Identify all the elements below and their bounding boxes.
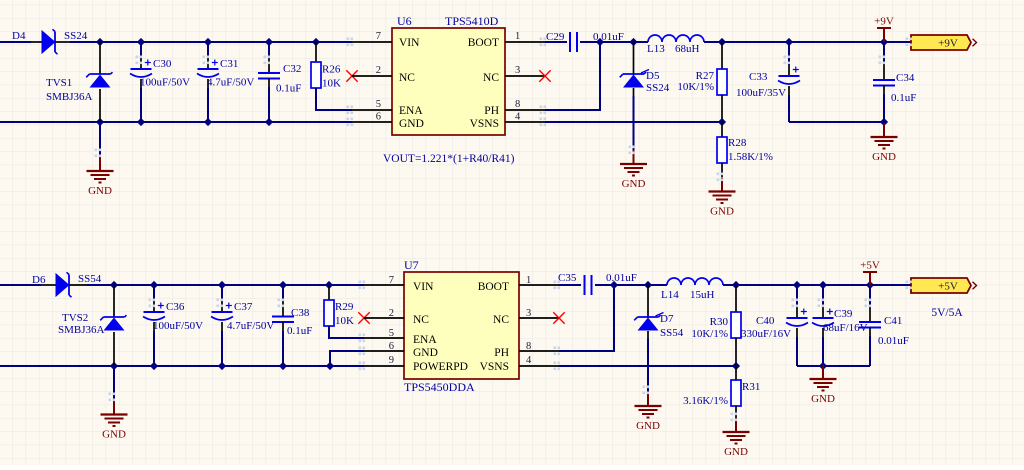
ground GND below C34 <box>871 123 898 163</box>
svg-text:4.7uF/50V: 4.7uF/50V <box>207 77 254 89</box>
svg-text:NC: NC <box>399 72 415 84</box>
svg-text:15uH: 15uH <box>690 289 715 301</box>
op-amp U6 TPS5410D body <box>392 14 505 135</box>
resistor R28 1.58K/1% <box>717 122 773 177</box>
svg-text:+5V: +5V <box>938 281 958 293</box>
inductor L14 15uH <box>661 278 911 301</box>
capacitor C32 0.1uF <box>258 42 301 122</box>
svg-text:D7: D7 <box>660 313 674 325</box>
svg-text:BOOT: BOOT <box>468 37 499 49</box>
diode D7 SS54 <box>634 285 684 339</box>
capacitor C39 68uF/16V <box>812 285 868 366</box>
VOUT formula note <box>383 153 515 165</box>
wire input rail to D6 anode <box>0 284 41 286</box>
svg-text:C30: C30 <box>153 58 172 70</box>
svg-text:1.58K/1%: 1.58K/1% <box>728 151 773 163</box>
svg-text:GND: GND <box>399 118 424 130</box>
svg-text:68uH: 68uH <box>675 43 700 55</box>
svg-text:C31: C31 <box>220 58 238 70</box>
capacitor C31 4.7uF/50V <box>197 42 254 122</box>
svg-text:1: 1 <box>515 31 520 42</box>
svg-text:TPS5410D: TPS5410D <box>445 14 499 28</box>
note 5V/5A <box>931 307 963 319</box>
svg-text:TPS5450DDA: TPS5450DDA <box>404 380 475 394</box>
ground GND below D5 <box>620 150 647 190</box>
svg-text:10K: 10K <box>335 315 354 327</box>
wire output ground segment <box>789 118 888 126</box>
wire top rail D4 to U6 VIN <box>70 38 352 46</box>
svg-text:8: 8 <box>515 99 520 110</box>
svg-text:4: 4 <box>515 112 521 123</box>
svg-text:PH: PH <box>484 105 499 117</box>
svg-text:VIN: VIN <box>399 37 420 49</box>
svg-text:6: 6 <box>376 112 381 123</box>
svg-text:GND: GND <box>710 206 734 218</box>
power +5V symbol <box>860 260 880 287</box>
svg-text:5V/5A: 5V/5A <box>931 307 963 319</box>
svg-text:C33: C33 <box>749 71 768 83</box>
svg-text:10K/1%: 10K/1% <box>691 328 728 340</box>
svg-text:100uF/50V: 100uF/50V <box>140 77 190 89</box>
svg-text:D4: D4 <box>12 30 26 42</box>
U6 pin names <box>399 37 499 130</box>
svg-text:10K/1%: 10K/1% <box>677 81 714 93</box>
svg-text:SS24: SS24 <box>646 82 670 94</box>
svg-text:VSNS: VSNS <box>470 118 499 130</box>
svg-text:ENA: ENA <box>399 105 423 117</box>
svg-text:+5V: +5V <box>860 260 880 272</box>
U6 pin stubs <box>352 42 545 122</box>
svg-text:TVS2: TVS2 <box>62 312 88 324</box>
svg-text:L13: L13 <box>647 43 665 55</box>
svg-text:VOUT=1.221*(1+R40/R41): VOUT=1.221*(1+R40/R41) <box>383 153 515 165</box>
svg-text:SMBJ36A: SMBJ36A <box>58 324 105 336</box>
wire BOOT node to output node bottom <box>614 281 667 289</box>
svg-text:D5: D5 <box>646 70 660 82</box>
port +5V <box>911 278 977 293</box>
svg-text:PH: PH <box>494 347 509 359</box>
svg-text:R26: R26 <box>322 64 341 76</box>
svg-text:5: 5 <box>376 99 381 110</box>
svg-text:VIN: VIN <box>413 281 434 293</box>
svg-text:0.1uF: 0.1uF <box>276 83 301 95</box>
wire D5 anode to ground <box>633 88 635 150</box>
svg-text:SMBJ36A: SMBJ36A <box>46 91 93 103</box>
resistor R31 3.16K/1% <box>683 366 760 418</box>
resistor R29 10K <box>324 285 354 327</box>
svg-text:330uF/16V: 330uF/16V <box>741 328 791 340</box>
svg-text:0.1uF: 0.1uF <box>287 325 312 337</box>
svg-text:4: 4 <box>526 355 532 366</box>
wire top rail D6 to U7 VIN <box>87 281 364 289</box>
wire R26 to ENA pin 5 <box>316 88 352 110</box>
svg-text:2: 2 <box>376 65 381 76</box>
resistor R26 10K <box>311 42 341 90</box>
svg-text:GND: GND <box>413 347 438 359</box>
ground GND below TVS1 <box>87 122 114 197</box>
svg-text:3: 3 <box>515 65 520 76</box>
no-ERC cross on U6 pin 2 <box>346 70 357 81</box>
wire D7 anode to ground <box>647 331 649 392</box>
capacitor C35 0.01uF <box>558 272 637 295</box>
U7 pin numbers <box>389 275 532 366</box>
svg-text:GND: GND <box>724 446 748 458</box>
svg-text:R28: R28 <box>728 137 747 149</box>
ground GND below TVS2 <box>101 366 128 441</box>
svg-text:0.1uF: 0.1uF <box>891 92 916 104</box>
svg-text:9: 9 <box>389 355 394 366</box>
inductor L13 68uH <box>647 35 911 55</box>
wire ground rail bottom <box>0 118 352 126</box>
capacitor C38 0.1uF <box>272 285 312 366</box>
svg-text:C38: C38 <box>291 307 310 319</box>
ground GND below D7 <box>635 392 662 432</box>
wire input rail to D4 anode <box>0 41 31 43</box>
power +9V symbol <box>874 16 894 43</box>
ground GND below R31 <box>723 418 750 458</box>
svg-text:SS54: SS54 <box>78 273 102 285</box>
svg-text:GND: GND <box>622 178 646 190</box>
ground GND below R28 <box>709 178 736 218</box>
resistor R27 10K/1% <box>677 42 727 95</box>
capacitor C40 330uF/16V <box>741 285 808 366</box>
svg-text:100uF/35V: 100uF/35V <box>736 87 786 99</box>
wire ground rail bottom 2 <box>0 362 364 370</box>
diode D6 SS54 <box>32 272 102 297</box>
svg-text:GND: GND <box>872 151 896 163</box>
U6 pin numbers <box>376 31 521 123</box>
svg-text:GND: GND <box>636 420 660 432</box>
svg-text:R30: R30 <box>710 316 729 328</box>
svg-text:C36: C36 <box>166 301 185 313</box>
op-amp U7 TPS5450DDA body <box>404 258 519 394</box>
svg-text:L14: L14 <box>661 289 679 301</box>
svg-text:BOOT: BOOT <box>478 281 509 293</box>
svg-text:ENA: ENA <box>413 334 437 346</box>
no-ERC cross on U6 pin 3 <box>539 70 550 81</box>
svg-text:C29: C29 <box>546 31 565 43</box>
svg-text:VSNS: VSNS <box>480 361 509 373</box>
resistor R30 10K/1% <box>691 285 741 340</box>
junction markers <box>95 38 913 422</box>
svg-text:NC: NC <box>413 314 429 326</box>
svg-text:SS54: SS54 <box>660 327 684 339</box>
capacitor C36 100uF/50V <box>143 285 203 366</box>
no-ERC cross on U7 pin 3 <box>553 312 564 323</box>
svg-text:3.16K/1%: 3.16K/1% <box>683 395 728 407</box>
svg-text:TVS1: TVS1 <box>46 77 72 89</box>
capacitor C37 4.7uF/50V <box>211 285 274 366</box>
wire GND pin 6 to ground rail <box>330 351 364 366</box>
svg-text:C39: C39 <box>834 308 853 320</box>
svg-text:10K: 10K <box>322 78 341 90</box>
no-ERC cross on U7 pin 2 <box>358 312 369 323</box>
wire BOOT node to output node <box>600 38 648 46</box>
ground GND below C39 <box>810 365 837 405</box>
wire VSNS feedback <box>545 95 726 126</box>
tvs diode TVS2 SMBJ36A <box>58 285 127 366</box>
svg-text:C40: C40 <box>756 315 775 327</box>
svg-text:100uF/50V: 100uF/50V <box>153 320 203 332</box>
svg-text:NC: NC <box>483 72 499 84</box>
capacitor C30 100uF/50V <box>130 42 190 122</box>
svg-text:GND: GND <box>102 429 126 441</box>
tvs diode TVS1 SMBJ36A <box>46 42 113 122</box>
svg-text:7: 7 <box>376 31 381 42</box>
capacitor C41 0.01uF <box>859 285 909 366</box>
svg-text:0.01uF: 0.01uF <box>878 335 909 347</box>
svg-text:U6: U6 <box>397 14 412 28</box>
svg-text:GND: GND <box>88 185 112 197</box>
svg-text:C34: C34 <box>896 72 915 84</box>
wire BOOT node to PH pin 8 bottom <box>559 281 618 351</box>
capacitor C29 0.01uF <box>545 31 624 52</box>
svg-text:C37: C37 <box>234 301 253 313</box>
diode D4 SS24 <box>12 29 88 54</box>
svg-text:R31: R31 <box>742 381 760 393</box>
svg-text:NC: NC <box>493 314 509 326</box>
svg-text:U7: U7 <box>404 258 419 272</box>
svg-text:+9V: +9V <box>938 38 958 50</box>
U7 pin stubs <box>364 285 559 366</box>
wire output ground segment bottom <box>797 362 870 370</box>
capacitor C33 100uF/35V <box>736 42 800 122</box>
svg-text:C35: C35 <box>558 272 577 284</box>
svg-text:POWERPD: POWERPD <box>413 361 468 373</box>
wire BOOT node to PH pin 8 <box>545 38 604 110</box>
wire R29 to ENA pin 5 <box>329 326 364 338</box>
svg-text:C41: C41 <box>884 315 902 327</box>
svg-text:R29: R29 <box>335 301 354 313</box>
diode D5 SS24 <box>620 42 670 94</box>
port +9V <box>911 35 977 50</box>
capacitor C34 0.1uF <box>873 42 916 122</box>
svg-text:SS24: SS24 <box>64 30 88 42</box>
svg-text:GND: GND <box>811 393 835 405</box>
svg-text:+9V: +9V <box>874 16 894 28</box>
svg-text:4.7uF/50V: 4.7uF/50V <box>227 320 274 332</box>
svg-text:0.01uF: 0.01uF <box>606 272 637 284</box>
wire VSNS feedback bottom <box>559 338 740 370</box>
U7 pin names <box>413 281 509 373</box>
svg-text:C32: C32 <box>283 63 301 75</box>
svg-text:D6: D6 <box>32 274 46 286</box>
